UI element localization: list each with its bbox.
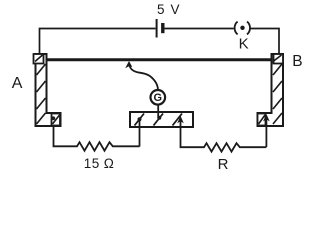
svg-text:5 V: 5 V	[157, 2, 181, 17]
svg-text:15 Ω: 15 Ω	[84, 156, 114, 171]
svg-text:R: R	[218, 156, 229, 173]
svg-text:K: K	[239, 36, 249, 53]
svg-text:B: B	[292, 53, 302, 70]
svg-text:G: G	[154, 92, 163, 104]
svg-text:A: A	[12, 75, 23, 92]
